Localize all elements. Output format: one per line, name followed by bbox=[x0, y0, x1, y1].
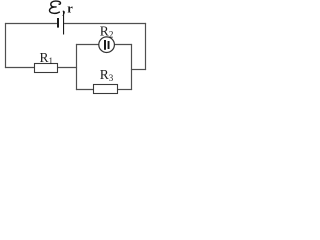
svg-text:R1: R1 bbox=[40, 50, 54, 66]
svg-text:R2: R2 bbox=[100, 24, 114, 40]
svg-text:R3: R3 bbox=[100, 67, 114, 83]
svg-text:r: r bbox=[67, 1, 73, 15]
